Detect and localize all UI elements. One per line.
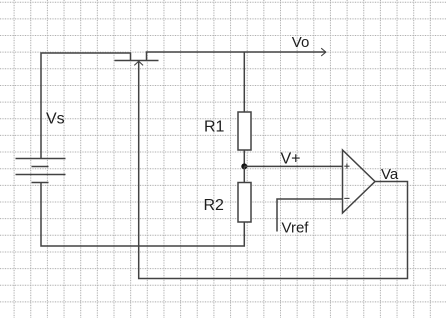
wire top line down to R1 — [243, 52, 245, 112]
op-amp plus input mark — [344, 164, 349, 169]
wire Vref to op-amp minus input — [277, 199, 343, 232]
svg-text:R2: R2 — [204, 197, 225, 214]
label Vs — [46, 110, 65, 127]
wire R2 bottom to battery negative — [41, 183, 244, 247]
svg-text:V+: V+ — [281, 151, 301, 168]
transistor Q1 channel bar — [115, 60, 159, 62]
label Vo — [292, 34, 310, 51]
wire R1 to node V+ — [243, 150, 245, 166]
arrowhead transistor gate — [134, 61, 143, 65]
svg-text:Vo: Vo — [292, 34, 310, 51]
svg-text:Va: Va — [381, 166, 399, 183]
wire node V+ to op-amp plus input — [244, 165, 342, 167]
wire op-amp output Va feedback to transistor gate — [139, 61, 408, 279]
wire battery positive to transistor drain — [41, 53, 131, 158]
label R2 — [204, 197, 225, 214]
resistor R2 — [238, 183, 251, 223]
wire node V+ to R2 — [243, 166, 245, 182]
label V+ — [281, 151, 301, 168]
label R1 — [204, 119, 225, 136]
resistor R1 — [238, 112, 251, 150]
svg-text:Vref: Vref — [282, 219, 310, 236]
arrowhead Vo — [321, 48, 326, 56]
label Va — [381, 166, 399, 183]
op-amp U1 — [343, 150, 376, 213]
svg-text:R1: R1 — [204, 119, 225, 136]
label Vref — [282, 219, 310, 236]
svg-text:Vs: Vs — [46, 110, 65, 127]
node V+ junction dot — [241, 163, 247, 169]
battery Vs plates — [16, 159, 66, 183]
op-amp minus input mark — [344, 197, 349, 199]
wire transistor source to Vo line — [147, 52, 327, 61]
